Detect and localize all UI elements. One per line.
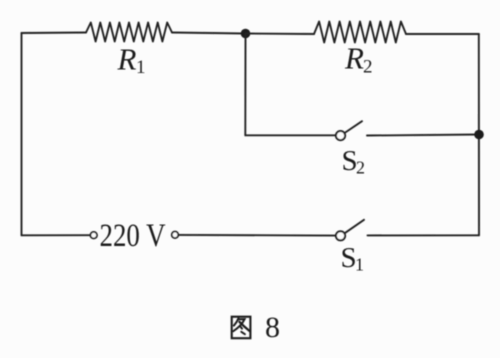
label R2 [344, 41, 373, 78]
wire: R2 to top-right corner [406, 33, 479, 35]
label R1 [117, 42, 146, 79]
node A (top junction dot) [241, 29, 251, 39]
svg-text:R: R [117, 42, 137, 77]
wire: left vertical [21, 33, 23, 235]
wire: S1 to bottom-right corner [368, 234, 480, 236]
wire: S2 to node B [367, 135, 479, 136]
svg-text:1: 1 [136, 57, 146, 78]
switch S2 [336, 121, 362, 140]
resistor R2 [314, 22, 406, 43]
wire: R1 to node A [172, 33, 246, 34]
wire: node A to R2 [246, 33, 315, 36]
switch S1 [336, 220, 364, 241]
wire: terminal to switch S1 [178, 234, 336, 237]
label S2 [342, 145, 366, 178]
source terminal right (circle) [172, 232, 179, 239]
source terminal left (circle) [90, 232, 97, 239]
wire: branch vertical from node A down [244, 34, 246, 136]
wire: right vertical (top corner to bottom corner) [478, 34, 480, 235]
svg-text:220 V: 220 V [100, 218, 166, 254]
svg-text:2: 2 [363, 57, 373, 78]
svg-text:8: 8 [265, 311, 280, 344]
wire: branch horizontal to switch S2 [245, 134, 336, 136]
node B (right junction dot) [474, 130, 484, 140]
svg-text:2: 2 [356, 158, 365, 178]
svg-text:1: 1 [355, 255, 364, 275]
wire: top-left horizontal from corner to R1 [22, 32, 87, 35]
wire: bottom-left from corner to source terminal [22, 234, 91, 236]
svg-text:R: R [344, 41, 364, 76]
label S1 [341, 242, 365, 275]
resistor R1 [86, 23, 172, 42]
caption: 图 character (drawn) [232, 317, 251, 339]
